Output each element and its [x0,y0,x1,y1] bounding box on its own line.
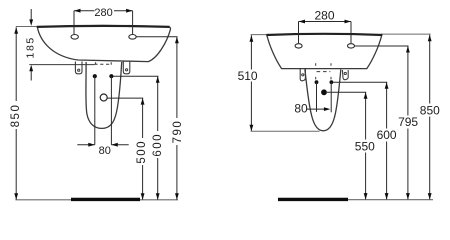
svg-text:850: 850 [420,103,440,117]
tap hole left (side) [295,44,302,48]
dim 600 line (side) [386,82,388,199]
extension lines from dots down to 80 dim (side) [316,82,318,112]
leader bolt to 600 (front) [114,75,159,77]
floor line (side) [348,199,433,201]
pedestal shroud (side) [305,69,341,130]
fixing bolt dot right (front) [109,74,113,78]
svg-text:185: 185 [25,36,37,58]
svg-text:600: 600 [152,133,164,157]
wall bracket left (front) [75,62,82,74]
leader drain dot to 550 (side) [327,91,366,93]
tap hole right (front) [129,35,136,40]
tap hole left (front) [71,35,78,40]
wall bracket left (side) [300,69,305,81]
extension line from bolt dots down to 80 dim (front) [94,76,96,145]
basin outline (side) [267,34,382,69]
dim 280 (front) line [74,10,133,12]
drain circle (front) [100,94,107,101]
leader tap hole to 790 (front) [136,36,177,38]
fixing bolt dot left (front) [93,74,97,78]
extension line: rim top extended left to 850 dim [16,26,40,28]
hidden dashed edge under basin (front) [94,63,112,65]
dim 850 line (side) [429,35,431,200]
hidden dashed edges under basin (side) [315,63,317,66]
dim 185 arrows (front) [30,9,32,21]
extension line: rim top extended left to 510 dim [251,34,268,36]
extension line for 185 bottom (front) [29,64,94,66]
svg-text:550: 550 [355,140,375,154]
wall bracket right (side) [342,70,348,80]
leader tap hole to 795 (side) [354,45,408,47]
svg-text:510: 510 [238,69,258,83]
svg-text:80: 80 [294,102,308,116]
leader bolt dot to 600 (side) [333,81,387,83]
fixing bolt dot upper-right (side) [330,80,334,84]
svg-text:790: 790 [172,120,184,144]
extension line pedestal bottom to 510 (side) [251,130,320,132]
dim 600 line (front) [157,76,159,199]
dim 550 line (side) [365,92,367,199]
dim 510 line (side) [250,35,252,131]
dim 280 (side) line [299,21,352,23]
basin rim thick edge (side) [266,34,382,35]
dim 795 line (side) [407,46,409,199]
dim 500 line (front) [142,98,144,200]
svg-text:850: 850 [10,104,22,128]
drain dot (side) [321,89,327,95]
dim 850 line (front) [15,27,17,199]
dim 80 (side) [307,108,326,110]
dim 80 (front) [77,144,95,146]
floor line (front) [16,199,179,201]
basin outline (front) [37,26,170,62]
svg-text:795: 795 [398,115,418,129]
svg-text:280: 280 [314,8,334,22]
svg-text:280: 280 [94,7,112,19]
svg-text:80: 80 [99,145,111,157]
tap hole right (side) [348,44,355,48]
basin rim thick edge (front) [37,26,170,27]
pedestal shroud (front) [86,62,122,128]
svg-text:500: 500 [136,140,148,164]
dim 790 line (front) [176,37,178,200]
extension line: rim top extended right to 850 dim [381,33,431,35]
floor thick bar (side) [278,198,348,201]
leader drain to 500 (front) [107,97,143,99]
svg-text:600: 600 [377,128,397,142]
wall bracket right (front) [123,62,130,74]
fixing bolt dot upper-left (side) [315,80,319,84]
floor thick bar (front) [71,198,140,201]
